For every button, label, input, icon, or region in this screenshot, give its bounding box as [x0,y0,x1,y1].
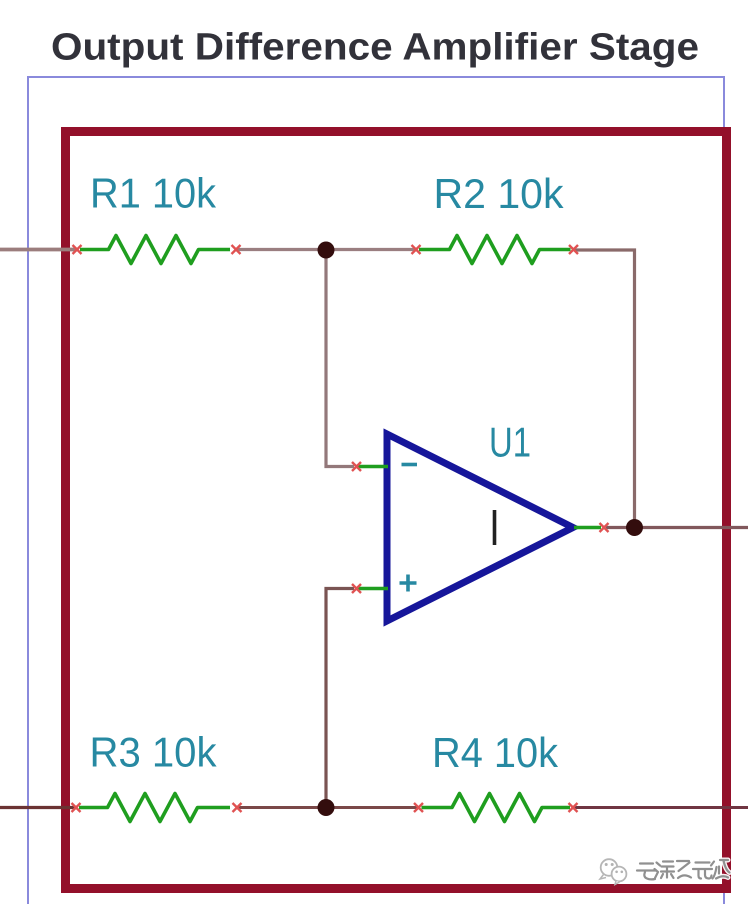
pin marker U1.+ [352,584,361,593]
wire: node to inverting input [326,251,354,467]
op-amp minus sign [402,463,418,467]
wire: R4 to right edge [573,806,748,809]
pin marker U1.out [600,523,609,532]
pin marker R3.2 [233,803,242,812]
wire: output to right edge [606,526,748,529]
node A (junction R1/R2) [318,242,335,259]
op-amp text cursor bar [493,510,497,545]
pin marker R1.2 [232,245,241,254]
svg-text:R3 10k: R3 10k [90,729,217,776]
svg-text:R2 10k: R2 10k [434,170,564,217]
pin marker R2.2 [569,245,578,254]
pin marker R4.1 [414,803,423,812]
pin marker R3.1 [72,803,81,812]
pin marker R4.2 [569,803,578,812]
hierarchical block border (dark red box) [66,132,727,889]
wire: top-left input stub [0,248,77,252]
watermark logo (chat bubbles) [600,859,626,884]
pin lead: output [574,526,601,530]
pin lead: inverting input [357,465,388,469]
wire: R2 right to feedback corner [575,250,635,528]
pin marker R1.1 [73,245,82,254]
svg-text:R4 10k: R4 10k [432,729,558,776]
node C (junction R3/R4) [318,799,335,816]
resistor R2 [419,236,571,264]
resistor R4 [422,794,571,822]
wire: non-inverting input branch down to bottom node [326,589,354,808]
wire: R3 to R4 segment through node [237,806,419,809]
pin lead: non-inverting input [357,587,388,591]
resistor R3 [79,794,230,822]
pin marker R2.1 [412,245,421,254]
pin marker U1.- [352,462,361,471]
svg-text:Output Difference Amplifier St: Output Difference Amplifier Stage [51,27,699,69]
op-amp U1 triangle [387,434,573,621]
node B (output junction) [626,519,643,536]
svg-text:R1 10k: R1 10k [90,170,216,217]
wire: R1 to R2 segment through node [236,248,416,251]
resistor R1 [80,236,230,264]
op-amp plus sign [400,575,417,592]
svg-text:U1: U1 [489,419,531,466]
wire: bottom-left input stub [0,806,76,809]
